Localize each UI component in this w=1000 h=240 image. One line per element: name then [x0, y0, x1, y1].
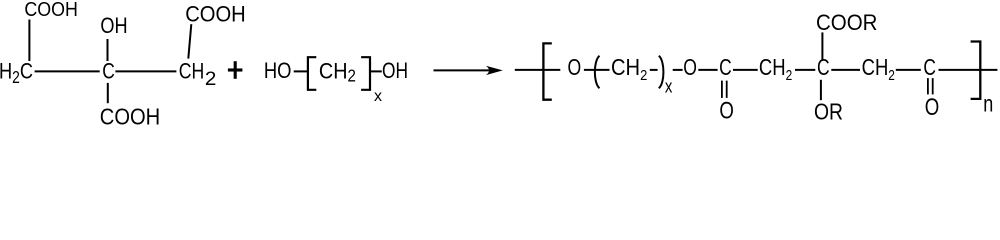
plus sign — [228, 68, 243, 71]
wire: Cq down to OR — [820, 80, 822, 100]
wire: CH2 to C — [896, 69, 921, 71]
wire: bracket to OH — [371, 70, 382, 72]
bracket outer left [ — [543, 43, 551, 99]
wire: O to ( — [584, 69, 610, 71]
wire: C down to COOH — [107, 83, 109, 103]
wire: Cq to CH2 — [831, 69, 860, 71]
wire: COOH to H2C — [28, 20, 30, 62]
svg-text:HO: HO — [264, 57, 292, 83]
bracket left [ — [308, 57, 316, 90]
svg-text:COOH: COOH — [100, 104, 160, 125]
wire: C - CH2 — [115, 70, 176, 72]
svg-text:O: O — [719, 97, 734, 124]
wire: leading bond through bracket — [515, 69, 561, 71]
wire: O to C — [698, 69, 717, 71]
wire: OH to C — [107, 39, 109, 61]
wire: COOH to CH2 (slanted) — [188, 24, 191, 58]
double bond C=O — [721, 81, 723, 98]
paren ) — [659, 56, 664, 88]
wire: C to CH2 — [733, 69, 758, 71]
paren ( — [595, 56, 600, 88]
wire: HO to bracket — [294, 70, 307, 72]
svg-text:O: O — [568, 54, 582, 80]
svg-text:x: x — [665, 76, 673, 97]
wire: CH2 to ) — [650, 69, 658, 71]
wire: Cq up to COOR — [821, 32, 823, 59]
wire: trailing bond through bracket — [939, 69, 998, 71]
svg-text:C: C — [719, 54, 732, 80]
svg-text:COOH: COOH — [185, 2, 246, 27]
wire: CH2 to Cq — [795, 69, 815, 71]
svg-text:OR: OR — [814, 99, 843, 125]
svg-text:C: C — [923, 54, 936, 80]
bracket outer right ] — [971, 42, 981, 99]
svg-text:C: C — [102, 58, 115, 84]
svg-text:CH: CH — [179, 58, 205, 84]
svg-text:OH: OH — [100, 12, 127, 38]
wire: ) to O — [673, 69, 683, 71]
wire: H2C - C — [35, 70, 100, 72]
svg-text:COOH: COOH — [24, 0, 78, 21]
svg-text:O: O — [683, 54, 697, 80]
svg-text:OH: OH — [382, 57, 408, 83]
svg-text:O: O — [925, 94, 940, 121]
double bond C=O — [927, 78, 929, 94]
svg-text:2: 2 — [205, 68, 217, 89]
svg-text:x: x — [374, 88, 382, 105]
svg-text:COOR: COOR — [816, 10, 878, 35]
svg-text:n: n — [983, 91, 993, 117]
bracket right ] — [361, 57, 370, 90]
